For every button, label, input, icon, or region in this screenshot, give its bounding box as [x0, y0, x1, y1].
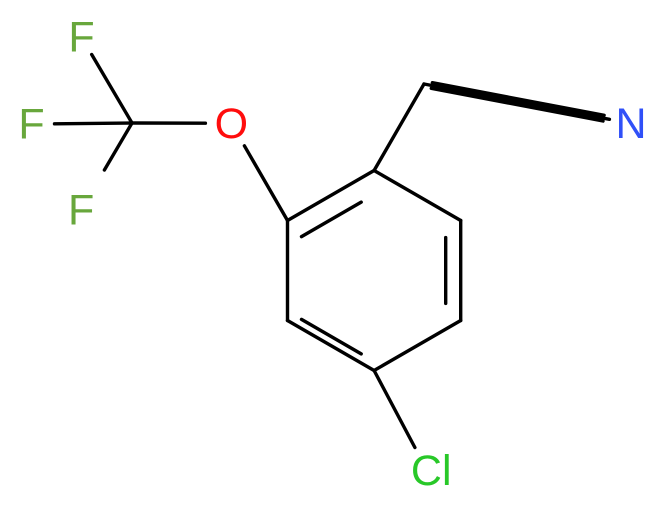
svg-text:F: F [68, 13, 94, 61]
svg-text:Cl: Cl [411, 447, 452, 495]
svg-text:F: F [18, 101, 44, 149]
svg-text:N: N [615, 100, 646, 148]
svg-text:O: O [215, 100, 248, 148]
svg-text:F: F [68, 186, 94, 234]
